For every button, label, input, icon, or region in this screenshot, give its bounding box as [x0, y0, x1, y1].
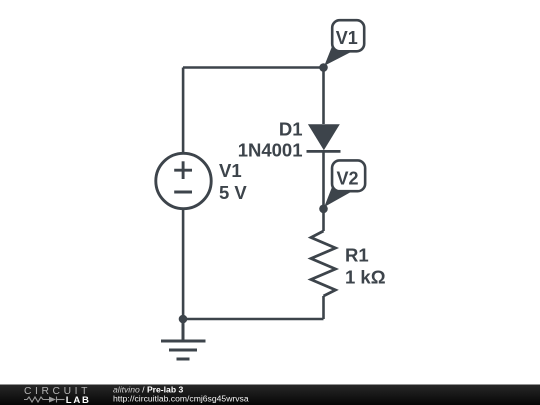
svg-text:1 kΩ: 1 kΩ: [345, 267, 386, 288]
wire left vertical (source to top): [182, 68, 185, 154]
node junction dot middle (V2 node): [319, 205, 328, 214]
wire source bottom to ground node: [182, 209, 185, 319]
node junction dot ground: [179, 315, 188, 324]
resistor label R1 1 kOhm: [345, 244, 386, 287]
node label V1 callout: [324, 20, 364, 66]
wire resistor bottom: [322, 296, 325, 319]
resistor R1: [311, 231, 336, 296]
footer bar: [0, 385, 540, 405]
voltage source label V1 5 V: [219, 160, 247, 203]
footer logo zigzag + diode symbol: [24, 397, 65, 403]
ground: [161, 319, 206, 359]
svg-text:R1: R1: [345, 244, 369, 265]
svg-text:V1: V1: [219, 160, 242, 181]
wire diode to resistor: [322, 152, 325, 232]
voltage source V1: [156, 153, 211, 208]
svg-text:5 V: 5 V: [219, 182, 247, 203]
svg-text:http://circuitlab.com/cmj6sg45: http://circuitlab.com/cmj6sg45wrvsa: [113, 394, 249, 404]
wire right vertical (top node to diode): [322, 68, 325, 125]
node junction dot top (V1 node): [319, 63, 328, 72]
svg-text:V2: V2: [336, 169, 358, 189]
svg-text:D1: D1: [279, 119, 303, 140]
svg-text:LAB: LAB: [66, 395, 91, 405]
diode D1: [307, 124, 341, 151]
svg-text:1N4001: 1N4001: [238, 140, 303, 161]
wire bottom horizontal: [183, 318, 324, 321]
diode label D1 1N4001: [238, 119, 303, 161]
wire top horizontal: [183, 66, 324, 69]
svg-text:V1: V1: [336, 28, 358, 48]
node label V2 callout: [324, 160, 365, 207]
